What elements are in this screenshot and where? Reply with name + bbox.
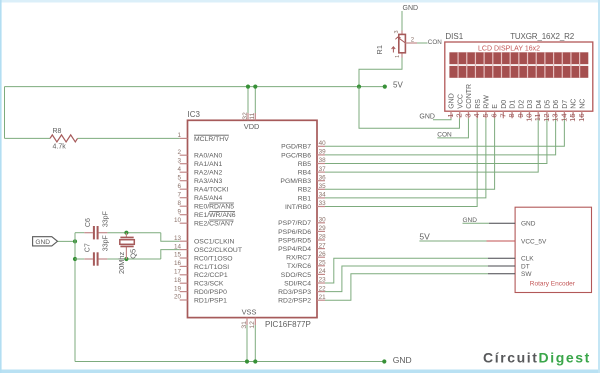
rotary encoder pin GND stub [489,222,515,224]
svg-text:34: 34 [319,192,327,199]
label CON (LCD pin3) [437,132,452,139]
svg-text:RX/RC7: RX/RC7 [286,255,311,262]
potentiometer R1 body [399,34,406,52]
potentiometer R1 top stub [401,31,403,35]
wire left gnd vertical [74,233,76,362]
svg-text:RC2/CCP1: RC2/CCP1 [194,272,228,279]
resistor R8 zigzag [50,135,77,142]
svg-text:21: 21 [319,294,327,301]
svg-text:7: 7 [177,191,181,198]
wire PIC pin33 to LCD pin4 [325,118,477,206]
svg-text:D2: D2 [518,100,525,109]
pin number 2 (pot) [411,38,415,44]
svg-text:GND: GND [403,5,419,12]
svg-text:CON: CON [428,39,442,46]
svg-text:GND: GND [521,221,536,228]
svg-text:9: 9 [177,208,181,215]
wire PIC pin39 to LCD pin13 [325,118,556,155]
svg-text:3: 3 [463,113,472,117]
svg-text:VDD: VDD [244,122,260,131]
svg-text:D0: D0 [501,100,508,109]
junction dot crystal bottom [124,257,128,261]
svg-text:2: 2 [455,113,464,117]
svg-text:13: 13 [551,113,560,121]
svg-text:11: 11 [533,113,542,121]
svg-text:19: 19 [174,285,182,292]
svg-text:D4: D4 [536,100,543,109]
svg-text:PGM/RB3: PGM/RB3 [280,178,311,185]
svg-text:SDO/RC5: SDO/RC5 [281,272,311,279]
wire PIC pin22 to encoder DT [325,266,488,292]
IC IC3 PIC16F877P body [188,120,318,317]
svg-text:8: 8 [177,200,181,207]
potentiometer R1 wiper diagonal [395,37,405,43]
svg-text:6: 6 [490,113,499,117]
svg-text:RB2: RB2 [298,187,311,194]
svg-text:20: 20 [174,294,182,301]
svg-text:10: 10 [174,217,182,224]
svg-text:23: 23 [319,277,327,284]
svg-text:RB1: RB1 [298,195,311,202]
svg-text:27: 27 [319,242,327,249]
wire OSC1 net (gnd vert - C6 - crystal - pin13) [75,233,180,242]
wire 5V label to encoder VCC_5V [419,240,486,242]
svg-text:RA1/AN1: RA1/AN1 [194,161,223,168]
svg-text:32: 32 [242,112,249,120]
svg-text:RE1/WR/AN6: RE1/WR/AN6 [194,212,236,219]
junction dot gnd vertical lower [73,257,77,261]
svg-text:RA0/AN0: RA0/AN0 [194,153,223,160]
wire VSS pin31 drop [246,325,248,362]
junction dot VSS pin12 [253,359,257,363]
svg-text:PSP7/RD7: PSP7/RD7 [278,220,311,227]
svg-text:25: 25 [319,260,327,267]
svg-text:DT: DT [521,263,530,270]
label VDD [244,122,260,131]
svg-text:R8: R8 [53,128,62,135]
svg-text:RA3/AN3: RA3/AN3 [194,178,223,185]
wire PIC pin38 to LCD pin12 [325,118,547,163]
svg-text:6: 6 [177,183,181,190]
value 33pF (C6) [103,211,110,227]
label Rotary Encoder [530,280,576,287]
svg-text:33pF: 33pF [103,235,110,251]
label R8 [53,128,62,135]
svg-text:5: 5 [177,174,181,181]
label R1 [375,45,384,55]
svg-text:R1: R1 [375,45,384,55]
svg-text:4: 4 [177,166,181,173]
svg-text:35: 35 [319,183,327,190]
svg-text:TUXGR_16X2_R2: TUXGR_16X2_R2 [510,32,575,41]
svg-text:NC: NC [571,99,578,109]
wire R8 to PIC pin1 [78,137,180,139]
potentiometer R1 wiper lead [405,42,427,44]
potentiometer R1 arrow [392,47,396,53]
rotary encoder pin labels [521,221,547,279]
label C6 [85,218,92,227]
svg-text:DIS1: DIS1 [445,32,463,41]
svg-text:RA5/AN4: RA5/AN4 [194,195,223,202]
svg-text:13: 13 [174,235,182,242]
svg-text:OSC1/CLKIN: OSC1/CLKIN [194,239,235,246]
svg-text:24: 24 [319,268,327,275]
junction dot crystal top [124,231,128,235]
svg-text:GND: GND [449,93,456,109]
junction dot VDD pin11 [253,85,257,89]
svg-text:30: 30 [319,217,327,224]
label 5V (top) [393,81,403,90]
svg-text:12: 12 [542,113,551,121]
svg-text:GND: GND [419,113,435,120]
svg-text:36: 36 [319,174,327,181]
wire VDD pin11 drop [254,87,256,113]
svg-text:C6: C6 [85,218,92,227]
svg-text:10: 10 [524,113,533,121]
svg-text:PGC/RB6: PGC/RB6 [281,152,311,159]
pin number 31 [241,321,248,329]
label TUXGR_16X2_R2 [510,32,575,41]
potentiometer R1 bottom stub [401,53,403,58]
svg-text:Q5: Q5 [128,249,137,259]
svg-text:40: 40 [319,140,327,147]
svg-text:CON: CON [437,132,452,139]
svg-text:D7: D7 [562,100,569,109]
svg-text:16: 16 [577,113,586,121]
label GND (bottom) [393,355,412,365]
IC3 pin numbers [174,132,326,301]
node 5V (top) dot [383,85,387,89]
svg-text:4.7k: 4.7k [53,144,67,151]
svg-text:5V: 5V [419,232,430,242]
svg-text:IC3: IC3 [188,110,201,119]
svg-text:D5: D5 [545,100,552,109]
svg-text:RE0/RD/AN5: RE0/RD/AN5 [194,204,234,211]
crystal Q5 bottom stub [125,247,127,259]
rotary encoder pin VCC_5V stub [487,240,516,242]
svg-text:TX/RC6: TX/RC6 [287,263,311,270]
label Q5 [128,249,137,259]
svg-text:RD2/PSP2: RD2/PSP2 [278,298,311,305]
pin number 1 (pot) [395,55,401,58]
LCD display cells [449,52,588,78]
junction dot gnd vertical upper [73,239,77,243]
crystal Q5 top stub [125,233,127,237]
wire 5V to R8 left lead [5,137,51,139]
capacitor C7 plates [93,252,99,265]
rotary encoder pin CLK stub [488,257,515,259]
svg-text:LCD DISPLAY 16x2: LCD DISPLAY 16x2 [478,46,540,53]
node GND (bottom) dot [382,359,386,363]
svg-text:RC1/T1OSI: RC1/T1OSI [194,264,229,271]
svg-text:PGD/RB7: PGD/RB7 [281,144,311,151]
svg-text:14: 14 [559,113,568,121]
junction dot VSS pin31 [245,359,249,363]
svg-text:26: 26 [319,251,327,258]
svg-text:Rotary Encoder: Rotary Encoder [530,280,576,287]
svg-text:RC3/SCK: RC3/SCK [194,281,224,288]
wire far-left vertical (5V to R8) [4,87,6,139]
wire PIC pin35 to LCD pin6 [325,118,495,189]
wire GND label to encoder GND [463,222,490,224]
wire 5V top rail [5,86,360,88]
wire VSS pin12 drop [254,325,256,362]
svg-text:33pF: 33pF [103,211,110,227]
wire GND symbol to left gnd vertical [58,240,76,242]
svg-text:C7: C7 [84,243,91,252]
wire PIC pin37 to LCD pin11 [325,118,538,172]
svg-text:VCC_5V: VCC_5V [521,238,547,245]
svg-text:VSS: VSS [242,307,257,316]
svg-text:RD0/PSP0: RD0/PSP0 [194,289,227,296]
wire PIC pin21 to encoder SW [325,274,488,301]
wire pot top to GND [401,11,403,31]
label IC3 [188,110,201,119]
svg-text:8: 8 [507,113,516,117]
wire 5V vertical down to LCD VCC [359,87,459,129]
svg-text:D3: D3 [527,100,534,109]
svg-text:RC0/T1OSO: RC0/T1OSO [194,255,233,262]
IC3 VDD pin stubs [248,113,255,120]
svg-text:4: 4 [472,113,481,117]
crystal Q5 plates [120,237,133,248]
pin number 12 [249,321,256,329]
pin number 32 [242,112,249,120]
svg-text:9: 9 [516,113,525,117]
capacitor C6 plates [93,226,99,239]
svg-text:VCC: VCC [457,94,464,109]
rotary encoder pin SW stub [488,273,515,275]
label 5V (encoder) [419,232,430,242]
svg-text:RA2/AN2: RA2/AN2 [194,170,223,177]
label LCD DISPLAY 16x2 [478,46,540,53]
svg-text:11: 11 [249,112,256,119]
svg-text:SW: SW [521,271,532,278]
LCD pin names [449,84,587,109]
svg-text:16: 16 [174,260,182,267]
svg-text:RA4/T0CKI: RA4/T0CKI [194,187,228,194]
svg-text:33: 33 [319,200,327,207]
svg-text:15: 15 [174,252,182,259]
label GND (LCD pin1) [419,113,435,120]
svg-text:31: 31 [241,321,248,329]
svg-text:GND: GND [35,239,50,246]
CircuitDigest logo [483,350,591,366]
svg-text:1: 1 [177,132,181,139]
svg-text:17: 17 [174,269,182,276]
svg-text:D1: D1 [510,100,517,109]
label DIS1 [445,32,463,41]
svg-text:28: 28 [319,234,327,241]
svg-text:SDI/RC4: SDI/RC4 [284,280,311,287]
svg-text:1: 1 [395,55,401,58]
svg-text:3: 3 [177,157,181,164]
svg-text:PSP4/RD4: PSP4/RD4 [278,246,311,253]
label VSS [242,307,257,316]
value 33pF (C7) [103,235,110,251]
pin number 3 (pot) [394,30,400,33]
value 20Mhz [117,252,126,274]
crystal Q5 body [120,240,135,245]
wire PIC pin40 to LCD pin14 [325,118,564,146]
svg-text:5: 5 [481,113,490,117]
LCD pin stubs [451,111,582,118]
wire VDD pin32 drop [247,87,249,113]
label PIC16F877P [265,320,311,329]
svg-text:NC: NC [579,99,586,109]
svg-text:22: 22 [319,285,327,292]
svg-text:CírcuitDigest: CírcuitDigest [483,350,591,366]
svg-text:1: 1 [446,113,455,117]
wire PIC pin23 to encoder CLK [325,258,488,283]
svg-text:CONTR: CONTR [466,84,473,109]
svg-text:RB5: RB5 [298,161,311,168]
svg-text:PIC16F877P: PIC16F877P [265,320,311,329]
wire OSC2 net (gnd vert - C7 - crystal - pin14) [75,250,180,259]
svg-text:RE2/CS/AN7: RE2/CS/AN7 [194,221,234,228]
svg-text:12: 12 [249,321,256,329]
svg-text:39: 39 [319,149,327,156]
svg-text:RB4: RB4 [298,170,311,177]
svg-text:INT/RB0: INT/RB0 [285,204,311,211]
svg-text:38: 38 [319,157,327,164]
label GND (encoder) [463,217,478,224]
label C7 [84,243,91,252]
svg-text:MCLR/THV: MCLR/THV [194,136,229,143]
svg-text:GND: GND [393,355,412,365]
svg-text:D6: D6 [553,100,560,109]
svg-text:OSC2/CLKOUT: OSC2/CLKOUT [194,247,242,254]
svg-text:15: 15 [568,113,577,121]
svg-text:RS: RS [475,99,482,109]
IC3 pin stubs [180,138,325,300]
wire bottom GND rail [75,361,384,363]
svg-text:E: E [492,104,499,109]
svg-text:3: 3 [394,30,400,33]
wire 5V rail stub to 5V label dot [359,86,385,88]
svg-text:14: 14 [174,243,182,250]
rotary encoder body [515,207,591,292]
svg-text:29: 29 [319,225,327,232]
pin number 11 [249,112,256,119]
value 4.7k [53,144,67,151]
LCD pin numbers [446,113,586,121]
svg-text:PSP5/RD5: PSP5/RD5 [278,237,311,244]
IC3 pin names [194,135,311,304]
svg-text:PSP6/RD6: PSP6/RD6 [278,229,311,236]
svg-text:37: 37 [319,166,327,173]
wire pot bottom to 5V vertical [359,58,402,87]
ground symbol GND [33,237,58,246]
svg-text:RD3/PSP3: RD3/PSP3 [278,289,311,296]
IC3 VSS pin stubs [247,318,255,325]
label CON (pot wiper) [428,39,442,46]
svg-text:RD1/PSP1: RD1/PSP1 [194,297,227,304]
wire LCD pin3 to CON label [437,118,468,138]
rotary encoder pin DT stub [488,265,515,267]
svg-text:5V: 5V [393,81,403,90]
svg-text:R/W: R/W [483,95,490,109]
svg-text:20Mhz: 20Mhz [117,252,126,274]
wire LCD pin1 to GND label [433,118,451,119]
junction dot 5V/pot vertical [357,85,361,89]
junction dot VDD pin32 [246,85,250,89]
svg-text:2: 2 [177,149,181,156]
svg-text:18: 18 [174,277,182,284]
wire PIC pin34 to LCD pin5 [325,118,486,198]
LCD DIS1 body [445,42,593,111]
svg-text:GND: GND [463,217,478,224]
svg-text:7: 7 [498,113,507,117]
svg-text:CLK: CLK [521,256,534,263]
label GND (above pot R1) [403,5,419,12]
